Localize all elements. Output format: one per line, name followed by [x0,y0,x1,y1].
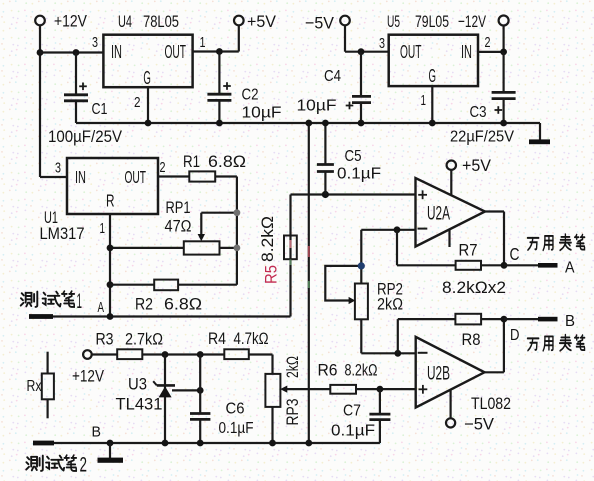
svg-text:C4: C4 [324,68,341,85]
wire to multimeter probe B [504,318,538,320]
svg-text:IN: IN [111,42,122,62]
svg-text:IN: IN [75,167,86,187]
svg-text:A: A [98,300,105,316]
wire R5 to opamp noninverting [291,193,416,195]
label 测试笔1 [21,290,82,313]
resistor R1 6.8ohm [158,153,246,182]
svg-text:8.2kΩ: 8.2kΩ [345,362,378,380]
node C6 bottom on B rail [197,440,204,447]
power terminal +12V [35,12,87,31]
svg-text:2: 2 [80,454,88,477]
resistor R6 8.2kohm [287,362,416,394]
svg-text:R6: R6 [318,362,338,380]
power terminal +12V bottom [72,350,104,385]
pin 2 label U1 [160,159,166,176]
svg-text:22µF/25V: 22µF/25V [450,129,514,146]
pin 3 label U5 [379,35,385,52]
svg-text:U2B: U2B [427,364,450,385]
wire U1 R pin down [109,214,111,317]
svg-text:R3: R3 [96,331,114,349]
svg-text:4.7kΩ: 4.7kΩ [234,330,269,348]
pin 2 label U4 [134,94,141,111]
capacitor C1 100uF/25V [48,53,122,147]
svg-text:RP3: RP3 [284,399,302,426]
capacitor C4 10uF [297,52,372,123]
svg-text:0.1µF: 0.1µF [337,166,381,183]
label 万用表笔 lower [528,335,585,351]
svg-text:TL082: TL082 [471,395,511,413]
node RP2 wiper junction blue [358,262,365,269]
svg-text:R: R [106,191,115,211]
capacitor C6 0.1uF [190,355,254,444]
wire -5V to U5 OUT pin 3 [345,25,389,52]
regulator U1 LM317 [40,158,159,243]
label 万用表笔 upper [528,234,585,250]
wire +12V to U4 IN pin 3 [40,51,103,53]
node U3 anode on B rail [162,440,169,447]
shunt reference U3 TL431 [116,355,201,444]
resistor R7 8.2kohm [397,242,506,298]
label A probe [565,260,575,277]
node U5 pin1 on rail [429,120,436,127]
node junction C1 top [73,49,80,56]
svg-text:C7: C7 [343,403,361,420]
wire U2B output [485,319,504,372]
wire R8 feedback vertical [397,319,399,353]
regulator U4 78L05 [103,13,192,88]
node C4 bottom on rail [358,120,365,127]
svg-text:D: D [510,327,520,344]
svg-text:U2A: U2A [427,204,450,225]
svg-text:LM317: LM317 [40,225,85,243]
svg-text:B: B [92,424,102,441]
svg-text:−5V: −5V [464,416,494,434]
probe bar test pen 2 [33,441,54,446]
svg-text:100µF/25V: 100µF/25V [48,128,122,146]
wire test pen 2 rail B [35,442,380,444]
pin 2 label U5 [485,34,491,51]
resistor Rx unknown [27,352,54,419]
svg-text:R1: R1 [183,153,200,171]
svg-text:6.8Ω: 6.8Ω [208,153,246,171]
wire RP2 bottom to U2B inverting [361,319,415,353]
power terminal -5V [305,14,350,33]
op-amp U2A [416,178,486,247]
ground symbol top right [529,139,550,144]
label R5 red rotated [263,265,281,284]
probe bar test pen 1 [29,314,53,319]
svg-text:R4: R4 [208,330,226,348]
svg-text:1: 1 [100,220,106,237]
wire U2A inverting input [361,229,415,231]
svg-text:C3: C3 [470,104,487,121]
svg-text:C5: C5 [345,148,362,165]
svg-text:1: 1 [421,92,427,109]
node R8 feedback junction [394,350,401,357]
svg-text:C: C [510,244,520,264]
svg-text:8.2kΩx2: 8.2kΩx2 [442,279,506,297]
svg-text:A: A [565,260,575,277]
label 8.2k for R5 rotated [259,216,277,262]
wire U4 OUT to +5V [193,25,239,52]
capacitor C7 0.1uF [331,389,390,443]
svg-text:OUT: OUT [125,167,147,187]
svg-text:R8: R8 [462,331,481,349]
svg-text:+12V: +12V [72,368,104,386]
node R pin R2 branch [107,281,114,288]
svg-text:3: 3 [379,35,385,52]
label 2k RP3 rotated [284,356,302,378]
node junction at +12V column [37,49,44,56]
svg-text:G: G [143,68,151,88]
node RP1 wiper junction [234,209,241,216]
wire U2A output [485,212,504,266]
pin 3 label U1 [55,160,61,177]
node C output junction [501,262,508,269]
wire +12V vertical to U1 IN [40,25,67,177]
wire ground vertical long [308,123,310,443]
svg-text:G: G [429,66,437,86]
label RP3 rotated [284,399,302,426]
wire -12V to U5 IN pin 2 [478,26,504,52]
probe bar A [538,263,558,268]
svg-text:79L05: 79L05 [415,13,449,31]
svg-text:U4: U4 [118,13,132,31]
node U3 ref C6 junction [197,387,204,394]
power terminal -5V U2B [446,390,494,433]
label B probe [565,313,575,330]
potentiometer RP3 2kohm [265,355,287,444]
potentiometer RP2 2kohm [325,230,403,319]
node R pin RP1 branch [107,245,114,252]
wire test pen 1 rail A [31,315,291,317]
node D output junction [501,316,508,323]
resistor R4 4.7kohm [208,330,273,359]
node ground vertical bottom [305,440,312,447]
svg-text:RP1: RP1 [166,199,191,217]
svg-text:2kΩ: 2kΩ [377,296,403,314]
svg-text:10µF: 10µF [242,105,282,122]
svg-text:TL431: TL431 [116,396,163,414]
potentiometer RP1 47ohm [110,199,237,255]
svg-text:U5: U5 [387,13,400,31]
svg-text:2: 2 [485,34,491,51]
svg-text:−12V: −12V [458,12,486,31]
pin 3 label U4 [92,34,98,51]
regulator U5 79L05 [387,13,478,86]
svg-text:C6: C6 [226,401,245,418]
svg-text:2.7kΩ: 2.7kΩ [125,331,163,349]
pin 1 label U1 [100,220,106,237]
ground rail top [76,123,540,140]
svg-text:2kΩ: 2kΩ [284,356,302,378]
svg-text:Rx: Rx [27,378,42,395]
ground symbol bottom [98,443,124,463]
svg-text:6.8Ω: 6.8Ω [164,296,202,314]
svg-text:U3: U3 [128,376,147,394]
svg-text:B: B [565,313,575,330]
svg-text:+5V: +5V [462,157,491,175]
wire feedback R7 vertical [396,230,398,265]
power terminal +5V U2A [447,157,491,195]
power terminal +5V [234,12,277,31]
svg-text:−5V: −5V [305,14,335,33]
capacitor C2 10uF [207,52,281,124]
capacitor C5 0.1uF [317,123,381,195]
pin 1 label U5 [421,92,427,109]
svg-text:OUT: OUT [165,42,187,62]
svg-text:8.2kΩ: 8.2kΩ [259,216,277,262]
svg-text:2: 2 [134,94,141,111]
node C2 bottom on rail [216,120,223,127]
node RP3 bottom on B rail [269,440,276,447]
svg-text:C1: C1 [92,101,108,118]
svg-text:0.1µF: 0.1µF [331,423,375,440]
resistor R5 8.2kohm vertical [284,195,297,317]
svg-text:+5V: +5V [247,12,277,31]
svg-text:1: 1 [77,290,83,313]
node A label [98,300,105,316]
node C6 top junction [197,351,204,358]
node C3 bottom on rail [500,120,507,127]
svg-text:0.1µF: 0.1µF [219,420,254,437]
power terminal -12V [458,12,509,31]
resistor R2 6.8ohm [110,280,237,314]
node junction -12V C3 top [500,49,507,56]
pin 1 label U4 [200,34,206,51]
wire to multimeter probe A [504,264,538,266]
svg-text:3: 3 [92,34,98,51]
node feedback junction U2A [394,226,401,233]
probe bar B [538,317,558,322]
svg-text:C2: C2 [242,87,259,104]
svg-text:10µF: 10µF [297,98,337,115]
node C5 bottom junction [322,191,329,198]
wire R1 right vertical [236,177,238,285]
resistor R3 2.7kohm [92,331,225,360]
pin stub U2A negative supply [448,229,450,247]
node B label [92,424,102,441]
node C7 top junction [377,386,384,393]
node U4 pin2 on rail [145,120,152,127]
wire U4 G to ground rail [147,87,149,123]
node C5 top on rail [322,120,329,127]
svg-text:R7: R7 [459,242,478,260]
svg-text:2: 2 [160,159,166,176]
op-amp U2B [416,337,511,413]
svg-text:78L05: 78L05 [143,13,179,31]
svg-text:47Ω: 47Ω [165,218,192,236]
svg-text:3: 3 [55,160,61,177]
node junction C2 top [216,48,223,55]
svg-text:1: 1 [200,34,206,51]
svg-text:R5: R5 [263,265,281,284]
resistor R8 [398,314,504,349]
node A junction [107,313,114,320]
node R3 U3 junction [162,351,169,358]
svg-text:OUT: OUT [400,42,422,62]
node ground junction B rail [107,440,114,447]
node C label [510,244,520,264]
node RP1 right junction [234,245,241,252]
capacitor C3 22uF/25V [450,52,516,146]
wire U5 G to ground rail [431,86,433,123]
svg-text:R2: R2 [135,296,153,314]
node D label [510,327,520,344]
svg-text:+12V: +12V [54,12,88,31]
svg-text:IN: IN [461,42,472,62]
node junction C4 top [358,48,365,55]
node ground vertical top [305,120,312,127]
label 测试笔2 [26,454,87,477]
